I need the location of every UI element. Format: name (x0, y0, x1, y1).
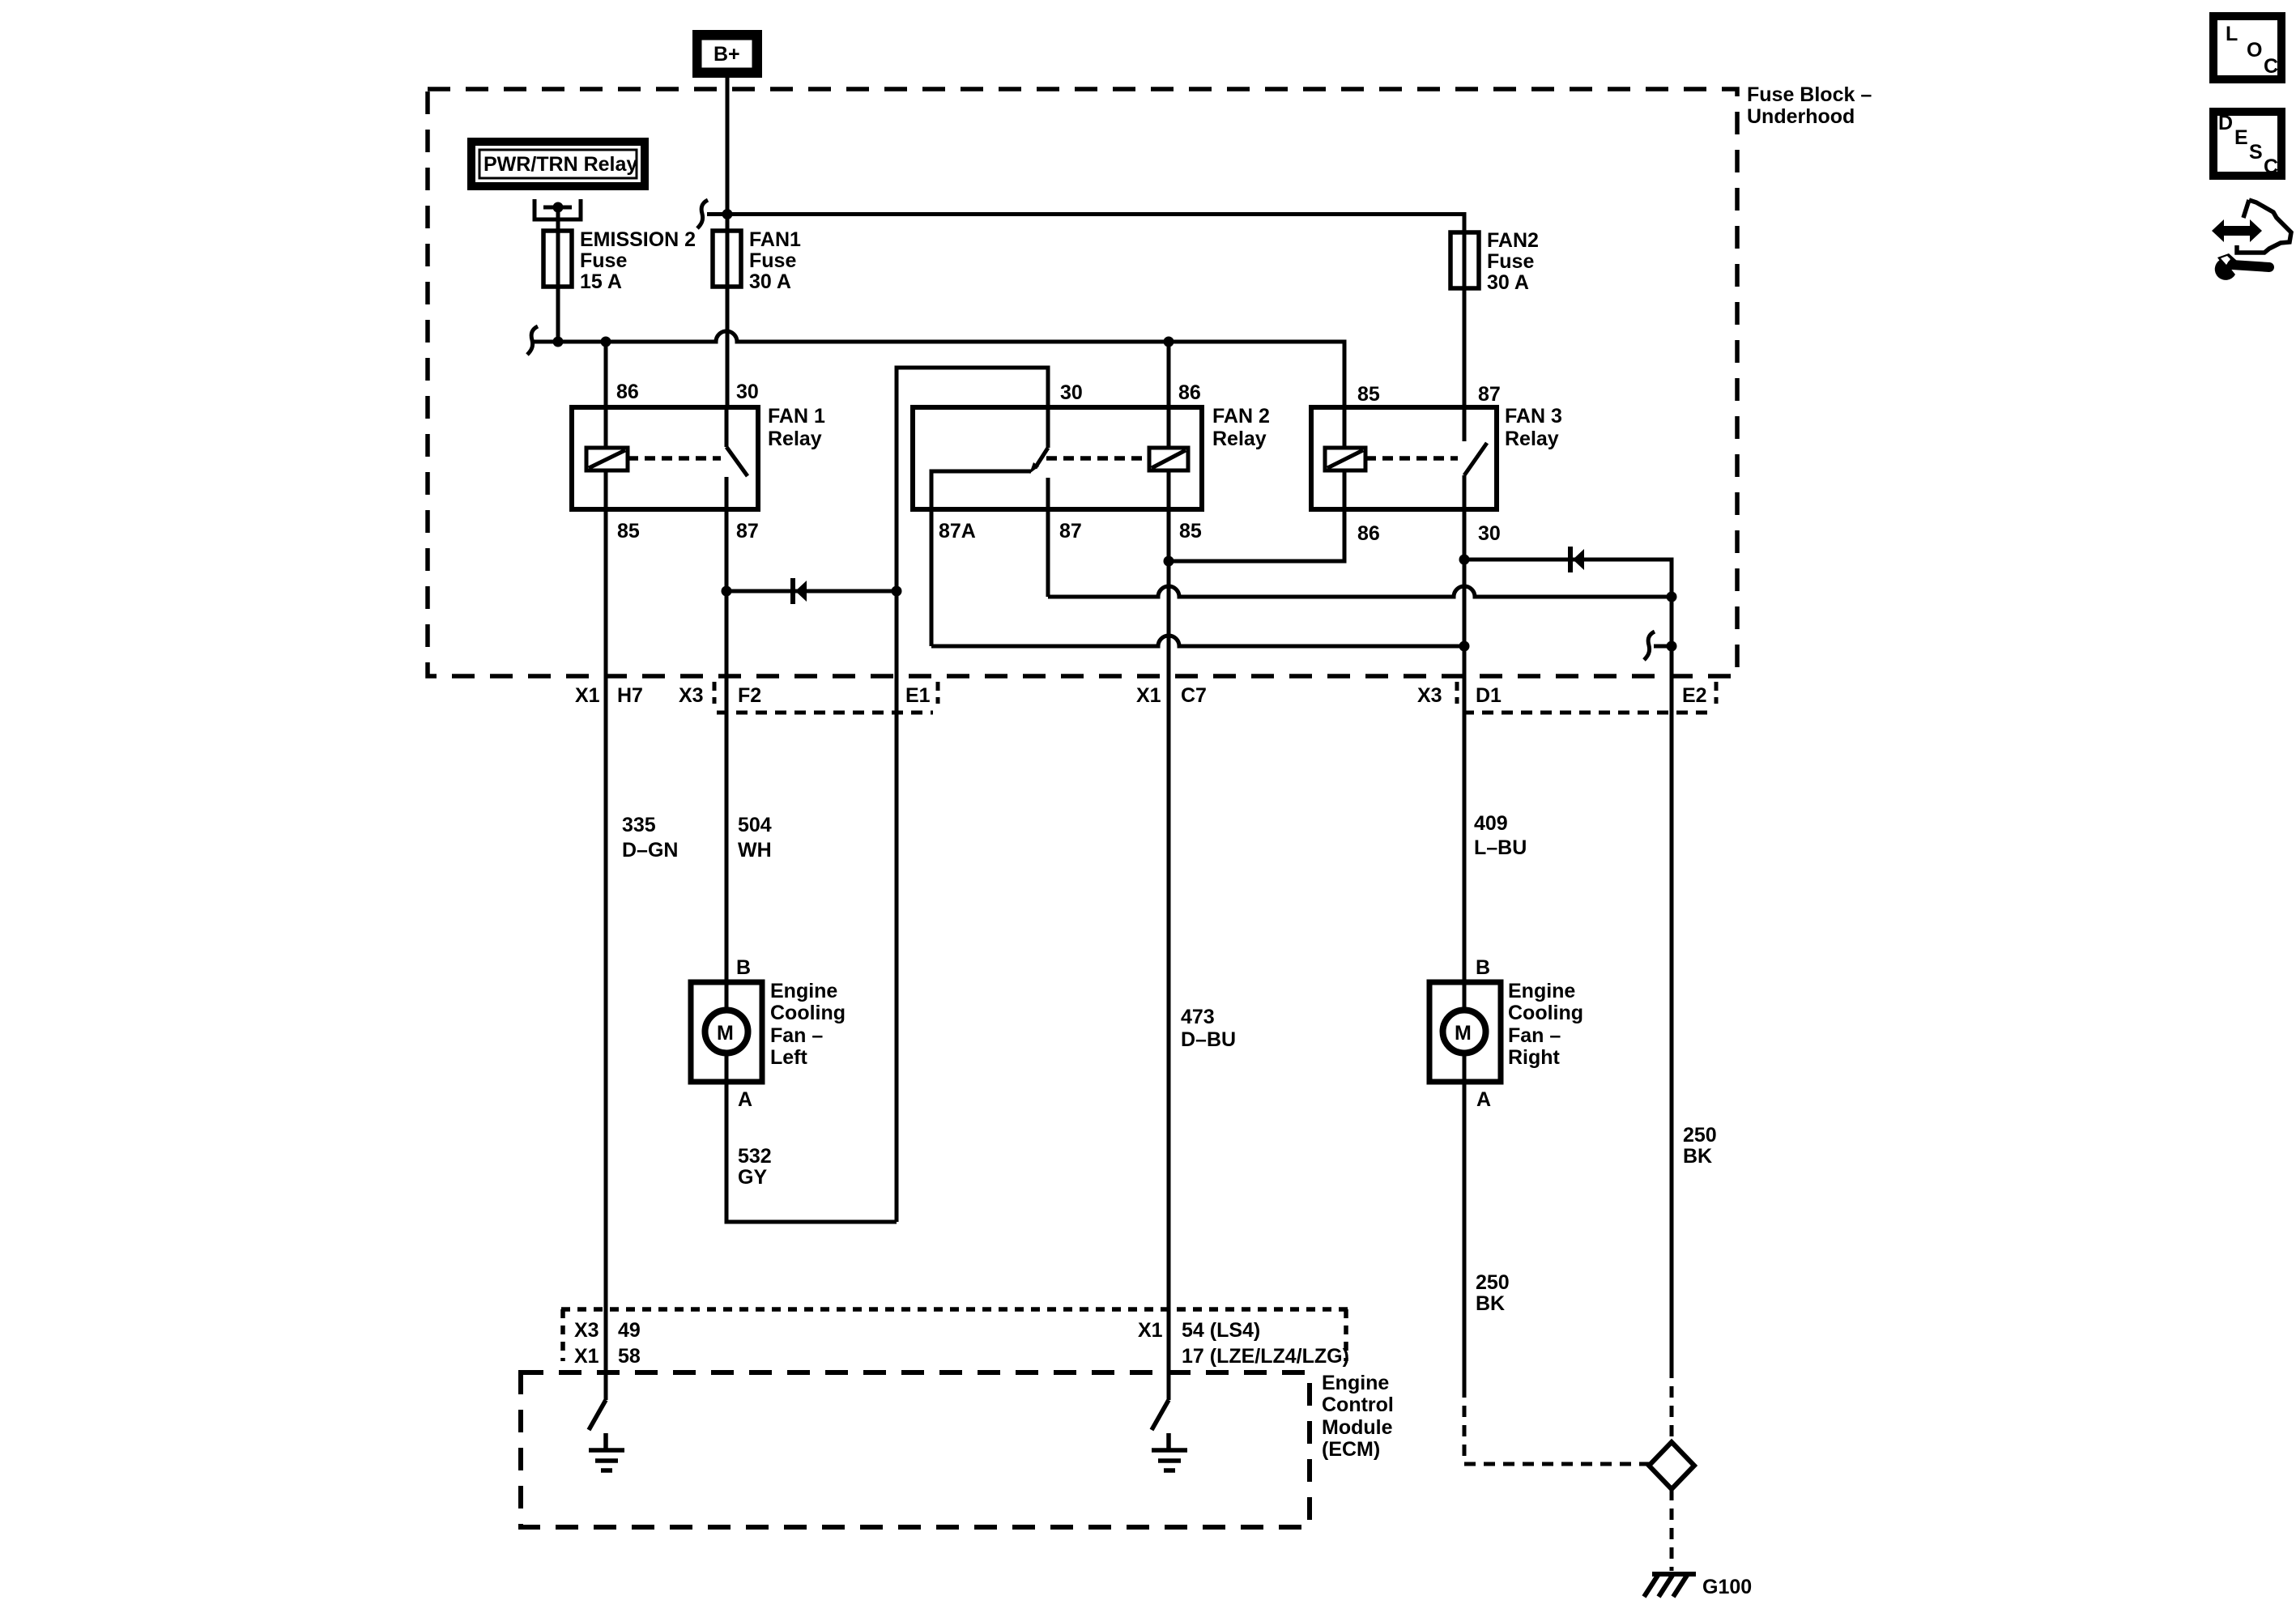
FAN2 coil-switch dashed link (1046, 456, 1149, 461)
svg-text:30: 30 (1060, 381, 1083, 404)
svg-text:85: 85 (617, 520, 640, 543)
svg-text:C7: C7 (1181, 684, 1207, 707)
wire: FAN 2 relay pin 87 over to E2 wire (hops over 473 and 409 wires) (1048, 510, 1672, 597)
wire: fused bus from EMISSION 2 fuse to relay coils (hops over FAN1 feed) (533, 331, 1344, 407)
node: junction FAN2-85 wire / FAN3-86 link (1164, 556, 1174, 567)
svg-text:87: 87 (1478, 383, 1501, 406)
svg-text:X3: X3 (679, 684, 704, 707)
wire: EMISSION 2 fuse feed from PWR/TRN relay (556, 206, 560, 342)
svg-text:87: 87 (736, 520, 759, 543)
svg-text:L: L (2226, 23, 2238, 45)
svg-text:A: A (738, 1088, 752, 1111)
svg-text:Fuse: Fuse (1487, 250, 1534, 273)
wire: E1 return wire up and over to FAN 2 relay pin 30 (897, 368, 1048, 591)
labels: FAN 1 relay pins 86 30 85 87 (616, 381, 759, 543)
wire: dashed E2 wire to splice (1670, 1367, 1674, 1442)
FAN3 switch: pin87 stub, blade, pin30 stub (1463, 407, 1467, 441)
svg-text:409: 409 (1474, 812, 1508, 835)
splice S: diamond (1649, 1442, 1694, 1489)
svg-text:X1: X1 (574, 1345, 599, 1368)
label: circuit 250 BK (E2 wire) (1683, 1124, 1717, 1168)
label: FAN 3 Relay (1505, 405, 1562, 450)
svg-text:17 (LZE/LZ4/LZG): 17 (LZE/LZ4/LZG) (1182, 1345, 1349, 1368)
fuse block - underhood dashed outline (428, 89, 1737, 676)
FAN1 switch: pin30 stub, blade, pin87 contact (725, 407, 729, 447)
node: junction FAN3-30 wire / diode 2 (1459, 555, 1470, 565)
svg-text:WH: WH (738, 839, 772, 862)
svg-text:X1: X1 (1136, 684, 1161, 707)
motor: Engine Cooling Fan - Right (1429, 982, 1501, 1082)
connector: left sub-connector dashed box (X3 F2 / E1) (714, 682, 938, 713)
relay: FAN 2 Relay (913, 407, 1202, 510)
FAN2 switch: pin30 stub and blade with arrow tip (1046, 407, 1050, 448)
wire: dashed ground run from right motor to splice (1464, 1386, 1649, 1464)
svg-text:Engine: Engine (770, 980, 837, 1002)
wire: FAN 2 relay pin 87A over to FAN 3 relay pin 30 wire (hops over 473 wire) (931, 510, 1464, 646)
node: junction 87A link / FAN3-30 wire (1459, 641, 1470, 652)
svg-text:L–BU: L–BU (1474, 836, 1527, 859)
svg-text:Fuse Block –: Fuse Block – (1747, 83, 1872, 106)
FAN3 coil wire through (1343, 407, 1347, 448)
svg-text:E2: E2 (1682, 684, 1707, 707)
svg-text:GY: GY (738, 1166, 767, 1189)
svg-text:(ECM): (ECM) (1322, 1438, 1380, 1461)
fuse: EMISSION 2 Fuse 15 A (543, 231, 572, 287)
svg-text:B+: B+ (714, 43, 740, 66)
symbol: pass-through curl at left end of bus (527, 326, 538, 355)
label: circuit 409 L-BU (1474, 812, 1527, 859)
svg-text:B: B (1476, 956, 1490, 979)
svg-text:504: 504 (738, 814, 772, 836)
svg-text:D: D (2218, 112, 2233, 134)
node: junction FAN1-87 wire / diode 1 (722, 586, 732, 597)
FAN2 coil (1149, 448, 1188, 470)
svg-text:15 A: 15 A (580, 270, 622, 293)
FAN2 87 contact stub (1046, 478, 1050, 510)
svg-text:M: M (717, 1022, 734, 1045)
wire: link FAN2 pin 85 to FAN 3 relay pin 86 (1169, 510, 1344, 561)
svg-text:Cooling: Cooling (770, 1002, 846, 1024)
icon: DESC box (2213, 112, 2281, 178)
svg-text:87A: 87A (939, 520, 976, 543)
svg-text:A: A (1476, 1088, 1491, 1111)
svg-text:85: 85 (1357, 383, 1380, 406)
wire: top feed to FAN2 fuse (727, 215, 1464, 408)
svg-text:FAN2: FAN2 (1487, 229, 1539, 252)
svg-text:BK: BK (1683, 1145, 1712, 1168)
svg-text:Relay: Relay (1505, 428, 1559, 450)
svg-text:D–BU: D–BU (1181, 1028, 1236, 1051)
FAN3 coil-switch dashed link (1365, 456, 1458, 461)
wire: FAN 1 relay pin 87 down to left fan motor pin B (circuit 504 WH) (725, 510, 729, 1085)
svg-text:58: 58 (618, 1345, 641, 1368)
svg-text:Fan –: Fan – (1508, 1024, 1561, 1047)
node: junction on E2 wire with fuse block internal stub (1667, 641, 1677, 652)
PWR/TRN Relay label box (471, 142, 645, 186)
label: circuit 250 BK (right motor ground) (1476, 1271, 1510, 1315)
svg-text:X3: X3 (574, 1319, 599, 1342)
node: junction diode 1 / E1 return wire (892, 586, 902, 597)
svg-text:Engine: Engine (1322, 1372, 1389, 1394)
svg-text:85: 85 (1179, 520, 1202, 543)
svg-text:B: B (736, 956, 751, 979)
label: Fuse Block - Underhood (1747, 83, 1872, 128)
FAN2 87A contact (931, 471, 1031, 510)
fuse: FAN2 Fuse 30 A (1450, 232, 1479, 288)
svg-text:Relay: Relay (1212, 428, 1267, 450)
svg-text:H7: H7 (617, 684, 643, 707)
FAN1 coil (586, 448, 628, 470)
svg-text:Fuse: Fuse (580, 249, 627, 272)
svg-text:Left: Left (770, 1046, 808, 1069)
wire: E1 return wire down through connector E1 (532 GY loop) (895, 591, 899, 1222)
svg-text:S: S (2249, 141, 2263, 164)
svg-text:F2: F2 (738, 684, 761, 707)
svg-text:Fan –: Fan – (770, 1024, 823, 1047)
svg-text:C: C (2264, 155, 2278, 178)
label: FAN 2 Relay (1212, 405, 1270, 450)
svg-text:Underhood: Underhood (1747, 105, 1855, 128)
Engine Control Module (ECM) dashed box (521, 1372, 1310, 1527)
FAN3 coil (1325, 448, 1365, 470)
wire: FAN 3 relay pin 30 down to right fan motor pin B (circuit 409 L-BU) (1463, 510, 1467, 1085)
svg-text:X1: X1 (1138, 1319, 1163, 1342)
svg-text:FAN 3: FAN 3 (1505, 405, 1562, 428)
wire: dashed splice to ground G100 (1670, 1489, 1674, 1571)
svg-text:E1: E1 (905, 684, 931, 707)
svg-text:87: 87 (1059, 520, 1082, 543)
svg-text:G100: G100 (1702, 1576, 1752, 1598)
svg-text:FAN 1: FAN 1 (768, 405, 825, 428)
svg-text:Right: Right (1508, 1046, 1561, 1069)
svg-text:49: 49 (618, 1319, 641, 1342)
svg-text:EMISSION 2: EMISSION 2 (580, 228, 696, 251)
svg-text:30: 30 (1478, 522, 1501, 545)
label: Engine Control Module (ECM) (1322, 1372, 1394, 1461)
wire: bus to FAN 1 relay pin 86 (604, 342, 608, 407)
label: circuit 504 WH (738, 814, 772, 862)
svg-text:FAN 2: FAN 2 (1212, 405, 1270, 428)
label: FAN 1 Relay (768, 405, 825, 450)
node: junction bus / FAN 1 relay coil (601, 337, 611, 347)
diode D2 symbol (cathode bar + arrow pointing left) (1568, 547, 1573, 572)
connector: right sub-connector dashed box (X3 D1 / E2) (1457, 682, 1716, 713)
svg-text:54 (LS4): 54 (LS4) (1182, 1319, 1260, 1342)
labels: FAN 3 relay pins 85 87 86 30 (1357, 383, 1501, 545)
wire: right fan motor pin A down (circuit 250 BK) (1463, 1082, 1467, 1386)
svg-text:PWR/TRN Relay: PWR/TRN Relay (483, 153, 637, 176)
icon: LOC box (2213, 16, 2281, 79)
svg-text:250: 250 (1683, 1124, 1717, 1147)
svg-text:250: 250 (1476, 1271, 1510, 1294)
svg-text:473: 473 (1181, 1006, 1215, 1028)
ECM internal ground for pin 54/17 (switch to ground) (1152, 1400, 1187, 1470)
svg-text:335: 335 (622, 814, 656, 836)
svg-text:Module: Module (1322, 1416, 1393, 1439)
svg-text:86: 86 (616, 381, 639, 403)
svg-text:Engine: Engine (1508, 980, 1575, 1002)
svg-text:30 A: 30 A (1487, 271, 1529, 294)
svg-text:Relay: Relay (768, 428, 822, 450)
svg-text:BK: BK (1476, 1292, 1505, 1315)
labels: FAN 2 relay pins 30 86 87A 87 85 (939, 381, 1202, 543)
node: junction bus / FAN 2 relay coil (1164, 337, 1174, 347)
svg-text:X1: X1 (575, 684, 600, 707)
label: circuit 473 D-BU (1181, 1006, 1236, 1051)
fuse: FAN1 Fuse 30 A (713, 231, 741, 287)
ground G100 symbol (1644, 1574, 1696, 1597)
label: Engine Cooling Fan - Right (1508, 980, 1583, 1069)
label: circuit 532 GY (738, 1145, 772, 1189)
FAN1 coil-switch dashed link (628, 456, 721, 461)
svg-text:30: 30 (736, 381, 759, 403)
svg-text:D1: D1 (1476, 684, 1502, 707)
svg-text:30 A: 30 A (749, 270, 791, 293)
B+ battery feed terminal (696, 34, 758, 74)
diode D2 line from FAN3-30 wire to E2 wire (1464, 560, 1672, 597)
relay: FAN 1 Relay (572, 407, 758, 510)
wire: left fan motor pin A to E1 (circuit 532 GY) (726, 1082, 897, 1222)
svg-text:532: 532 (738, 1145, 772, 1168)
labels: ECM connector pins X1 54 (LS4) / 17 (LZE/LZ4/LZG) (1138, 1319, 1349, 1368)
svg-text:Cooling: Cooling (1508, 1002, 1583, 1024)
svg-text:86: 86 (1178, 381, 1201, 404)
wire: internal stub with curl on E2 wire (1654, 645, 1672, 649)
ECM internal ground for pin 49/58 (switch to ground) (589, 1400, 624, 1470)
connector: ECM connector dotted box (561, 1309, 1348, 1361)
svg-text:M: M (1455, 1022, 1472, 1045)
svg-text:FAN1: FAN1 (749, 228, 801, 251)
PWR/TRN relay output contact symbol (cup + bar + dot) (535, 199, 581, 219)
svg-text:Control: Control (1322, 1394, 1394, 1416)
label: Engine Cooling Fan - Left (770, 980, 846, 1069)
wire: E2 ground wire down (circuit 250 BK) (1670, 597, 1674, 1367)
node: junction bus / EMISSION 2 fuse (553, 337, 564, 347)
FAN1 coil wire through (604, 407, 608, 448)
FAN2 coil wire through (1167, 407, 1171, 448)
wire: bus to FAN 2 relay pin 86 (1167, 342, 1171, 407)
svg-text:X3: X3 (1417, 684, 1442, 707)
diode D1 symbol (cathode bar + arrow pointing left) (790, 578, 795, 604)
wire: FAN 2 relay pin 85 down to ECM pin 54/17 (circuit 473 D-BU) (1167, 510, 1171, 1400)
wire: FAN2 fuse output down to FAN 3 relay pin 87 (1463, 287, 1467, 407)
node: junction B+ / FAN2 fuse feed (722, 209, 733, 219)
diode D1 line between FAN1 87 wire and FAN2 30 wire (726, 589, 897, 594)
svg-text:D–GN: D–GN (622, 839, 678, 862)
svg-text:O: O (2247, 39, 2262, 62)
labels: ECM connector pins X3 49 / X1 58 (574, 1319, 641, 1368)
svg-text:Fuse: Fuse (749, 249, 796, 272)
wire: stub with pass-through curl left of junction (707, 212, 727, 216)
node: junction FAN2-87 link / E2 wire (1667, 592, 1677, 602)
relay: FAN 3 Relay (1311, 407, 1497, 510)
svg-text:E: E (2234, 126, 2248, 149)
wire: B+ feed down through FAN1 fuse to FAN 1 relay pin 30 (726, 78, 730, 407)
label: circuit 335 D-GN (622, 814, 678, 862)
icon: component location arrow/hood/wrench (2212, 200, 2291, 280)
motor: Engine Cooling Fan - Left (691, 982, 762, 1082)
labels: fuse block connector pins X1 H7, X3 F2, E1, X1 C7, X3 D1, E2 (575, 684, 1707, 707)
svg-text:C: C (2264, 55, 2278, 78)
svg-text:86: 86 (1357, 522, 1380, 545)
wire: FAN 1 relay pin 85 down to ECM pin 49/58 (circuit 335 D-GN) (604, 510, 608, 1400)
